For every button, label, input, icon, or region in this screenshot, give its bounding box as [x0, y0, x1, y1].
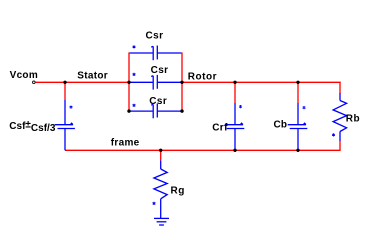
wire Vcom terminal to Csf junction — [35, 81, 65, 83]
wire Csf junction to left bus — [65, 81, 129, 83]
capacitor Crf — [225, 103, 245, 150]
svg-text:Csr: Csr — [146, 31, 164, 42]
junction Crf at frame net — [233, 149, 236, 152]
wire Crf top drop — [234, 82, 236, 103]
svg-text:Csr: Csr — [151, 65, 169, 76]
junction left bus middle — [127, 81, 130, 84]
marker capacitor Csf — [70, 106, 73, 109]
capacitor Csr top — [130, 46, 182, 61]
svg-text:Csf±Csf/3: Csf±Csf/3 — [9, 119, 56, 134]
wire Csf top drop — [64, 82, 66, 100]
resistor Rg — [154, 160, 167, 218]
svg-text:Stator: Stator — [77, 71, 108, 82]
terminal Vcom pin circle — [33, 81, 36, 84]
capacitor Csr middle — [130, 75, 182, 90]
resistor Rb — [333, 93, 347, 141]
junction left bus bottom — [127, 109, 130, 112]
marker resistor Rb — [332, 133, 335, 136]
ground — [154, 218, 169, 225]
wire Rb top drop — [339, 82, 341, 94]
marker capacitor Csr bottom — [133, 104, 136, 107]
junction Rg at frame net — [159, 149, 162, 152]
junction right bus bottom — [180, 109, 183, 112]
svg-text:Csr: Csr — [149, 96, 167, 107]
marker resistor Rg — [153, 202, 156, 205]
junction Cb at frame net — [296, 149, 299, 152]
marker capacitor Cb — [303, 106, 306, 109]
wire left bus vertical — [128, 52, 130, 111]
wire Rb bottom drop — [339, 140, 341, 150]
marker capacitor Csr top — [133, 45, 136, 48]
capacitor Csf — [55, 100, 75, 150]
junction Cb at rotor net — [296, 81, 299, 84]
wire Cb top drop — [297, 82, 299, 103]
svg-text:frame: frame — [111, 138, 140, 149]
junction Csf at stator net — [63, 81, 66, 84]
wire frame net horizontal — [65, 149, 341, 151]
svg-text:Crf: Crf — [212, 122, 228, 133]
wire Rg top drop — [160, 150, 162, 160]
junction right bus middle — [180, 81, 183, 84]
marker capacitor Csr middle — [133, 73, 136, 76]
svg-text:Rb: Rb — [346, 113, 361, 124]
svg-text:Rotor: Rotor — [188, 72, 217, 83]
wire right bus vertical — [181, 52, 183, 111]
svg-text:Rg: Rg — [171, 185, 185, 196]
capacitor Cb — [288, 103, 308, 150]
capacitor Csr bottom — [130, 104, 182, 119]
wire Rotor net horizontal — [182, 81, 341, 83]
svg-text:Vcom: Vcom — [10, 70, 38, 81]
marker capacitor Crf — [239, 105, 242, 108]
junction Crf at rotor net — [233, 81, 236, 84]
svg-text:Cb: Cb — [274, 119, 288, 130]
